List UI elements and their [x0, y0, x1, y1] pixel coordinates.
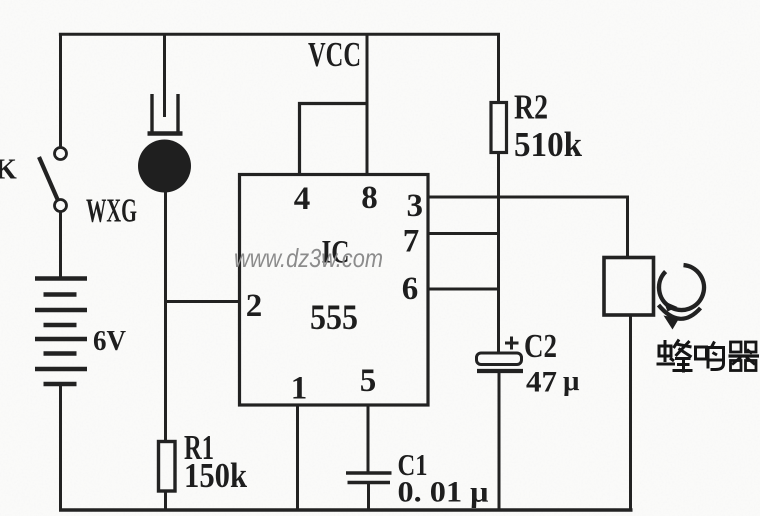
- svg-text:μ: μ: [563, 365, 580, 397]
- svg-text:4: 4: [294, 181, 311, 217]
- wire VCC drop to pin8: [366, 33, 369, 175]
- wire pin1 to bottom rail: [296, 405, 299, 511]
- wire C2 to bottom rail: [498, 371, 501, 511]
- svg-text:C2: C2: [524, 328, 557, 365]
- svg-text:8: 8: [361, 180, 378, 216]
- op-amp U1 IC 555 body: [240, 175, 429, 406]
- svg-text:555: 555: [310, 297, 358, 337]
- wire R2 to C2 node: [497, 153, 500, 355]
- wire R1 to bottom rail: [164, 491, 167, 511]
- capacitor C2: [477, 353, 524, 371]
- svg-text:1: 1: [291, 371, 308, 407]
- wire buzzer to bottom rail: [629, 316, 632, 512]
- svg-text:7: 7: [403, 224, 420, 260]
- capacitor C1: [346, 473, 392, 483]
- capacitor C2 polarity plus: [505, 337, 519, 350]
- wire left drop to switch: [59, 33, 62, 147]
- label buzzer chinese feng: [657, 340, 693, 373]
- sensor WXG probe: [138, 94, 191, 193]
- label buzzer chinese ming: [696, 342, 724, 370]
- wire pin2 stub: [166, 300, 241, 303]
- svg-text:6V: 6V: [93, 325, 126, 357]
- svg-text:WXG: WXG: [86, 193, 137, 230]
- svg-text:K: K: [0, 155, 17, 186]
- svg-text:510k: 510k: [514, 125, 583, 164]
- svg-text:150k: 150k: [184, 456, 247, 495]
- svg-text:www.dz3w.com: www.dz3w.com: [234, 243, 383, 273]
- resistor R1: [159, 442, 176, 492]
- buzzer coil circle: [659, 265, 704, 311]
- svg-text:47: 47: [526, 366, 557, 399]
- svg-text:5: 5: [360, 363, 377, 399]
- wire WXG to R1 column: [164, 190, 167, 441]
- wire switch to battery: [59, 212, 62, 278]
- wire pin6 stub: [428, 288, 500, 291]
- switch K: [39, 148, 67, 212]
- wire pin3 to buzzer: [428, 196, 629, 199]
- wire battery to bottom rail: [59, 384, 62, 511]
- resistor R2: [491, 103, 507, 153]
- wire pin7 stub: [428, 232, 500, 235]
- wire VCC to R2: [497, 33, 500, 104]
- wire C1 to bottom rail: [367, 482, 370, 511]
- wire top rail VCC: [59, 33, 500, 36]
- svg-text:2: 2: [246, 288, 263, 324]
- svg-text:6: 6: [402, 271, 419, 307]
- buzzer motion arc: [659, 305, 701, 330]
- svg-text:0. 01 μ: 0. 01 μ: [398, 476, 489, 509]
- wire pin5 to C1: [367, 405, 370, 472]
- svg-text:VCC: VCC: [308, 35, 361, 74]
- svg-text:R2: R2: [514, 88, 548, 127]
- buzzer body: [604, 258, 654, 316]
- svg-text:3: 3: [406, 188, 423, 224]
- label buzzer chinese qi: [729, 342, 760, 371]
- battery 6V: [35, 279, 87, 385]
- wire bottom rail ground bus: [59, 508, 633, 511]
- wire pin4-pin8 bridge: [300, 104, 368, 176]
- wire WXG top drop: [163, 33, 166, 117]
